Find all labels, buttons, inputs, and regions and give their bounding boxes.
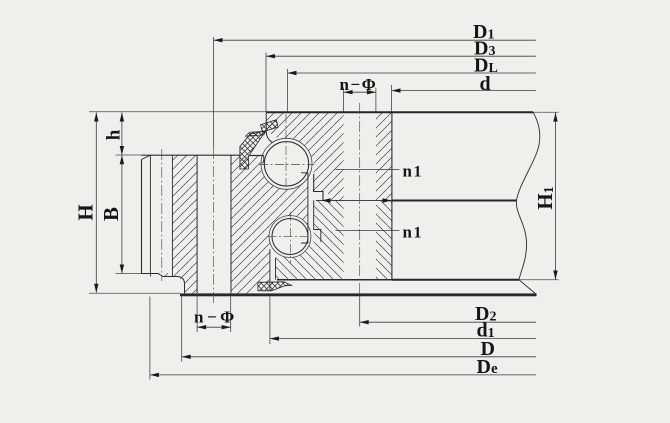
n1 leader lower — [336, 230, 400, 232]
bottom mounting band (thick) — [180, 293, 537, 296]
inner ring outline: bore edge — [141, 160, 143, 274]
svg-text:n−Φ: n−Φ — [340, 75, 378, 94]
centerline: gear column — [161, 149, 163, 281]
outer ring upper lip edge — [266, 113, 272, 143]
lower ball — [272, 219, 308, 255]
dimension H (left) — [95, 113, 97, 293]
outer ring upper half hatched body — [266, 113, 392, 201]
dimension D2 (bottom) — [360, 321, 536, 323]
gear tooth line 1 — [149, 155, 151, 276]
dimension d — [392, 90, 536, 92]
dimension DL — [288, 72, 536, 74]
dimension n-PHI top — [344, 91, 376, 93]
split line arrowhead left — [322, 198, 331, 203]
outer upper half inner profile at gap — [314, 174, 323, 200]
bottom extension line (left thin) — [89, 292, 180, 294]
break line (wavy) — [516, 112, 539, 294]
h bottom extension — [116, 154, 142, 156]
svg-text:n−Φ: n−Φ — [194, 307, 238, 326]
B bottom extension — [116, 273, 142, 275]
dimension n-PHI bottom — [197, 326, 231, 328]
inner ring gear-tooth column (white) — [142, 155, 172, 273]
inner ring bottom step — [142, 274, 185, 294]
lower seal (mesh) — [258, 282, 292, 291]
svg-text:B: B — [99, 207, 123, 221]
svg-text:d: d — [480, 73, 491, 95]
centerline: inner bolt hole — [213, 148, 215, 305]
n1 leader upper — [336, 169, 400, 171]
dimension H1 (right) — [555, 113, 557, 280]
upper ball pocket (raceway) — [261, 138, 312, 189]
surface curve into upper raceway — [263, 156, 264, 164]
lower ball pocket (raceway) — [269, 216, 311, 258]
lower structure bottom line (thick) — [392, 279, 519, 281]
outer lower half inner profile at gap — [314, 200, 321, 242]
inner ring tongue right edge — [301, 173, 308, 243]
centerline: upper ball vertical — [285, 114, 287, 190]
outer lower half left corner — [275, 258, 277, 280]
upper seal lip prong (mesh) — [246, 131, 266, 136]
centerline: outer bolt hole — [359, 103, 361, 296]
split line arrowhead right — [383, 198, 392, 203]
outer ring bottom line — [277, 279, 392, 281]
outer ring bolt hole (white column) — [344, 113, 376, 280]
split line thick (structures joint) — [392, 199, 517, 201]
inner ring hatched body — [142, 155, 308, 294]
raceway gap strip between rings — [308, 173, 314, 244]
H1 bottom extension — [519, 279, 559, 281]
dimension De (bottom) — [150, 374, 536, 376]
outer ring outer edge — [391, 113, 393, 281]
svg-text:H: H — [74, 204, 98, 220]
dimension D (bottom) — [182, 356, 536, 358]
split-line notch in upper outer half — [314, 192, 323, 201]
split line thin inside outer ring — [316, 199, 392, 201]
inner ring top chamfer — [142, 155, 151, 159]
dimension h (left) — [121, 113, 123, 156]
centerline: lower ball vertical — [289, 212, 291, 263]
top surface extension line (left thin) — [89, 111, 266, 113]
top surface (thick) — [266, 111, 533, 113]
outer ring lower half hatched body — [276, 200, 392, 280]
svg-text:h: h — [104, 129, 125, 140]
dimension D1 — [214, 39, 536, 41]
dimension B (left) — [121, 155, 123, 273]
inner ring bolt hole (white column) — [197, 155, 231, 293]
top surface H1 extension (right thin) — [533, 111, 559, 113]
lower gap strip left of outer lower half — [270, 244, 275, 280]
centerline: lower ball horizontal — [268, 236, 311, 238]
inner bolt hole walls — [197, 155, 231, 293]
upper ball — [264, 142, 308, 186]
dimension d1 (bottom) — [270, 338, 536, 340]
gear tooth line 2 — [171, 155, 173, 276]
centerline: upper ball horizontal — [259, 164, 314, 166]
inner ring right edge below lower ball — [269, 249, 271, 291]
inner ring top surface — [142, 154, 264, 156]
dimension D3 — [266, 55, 536, 57]
upper seal retainer block (mesh) — [261, 120, 279, 132]
upper seal wedge (mesh) — [240, 131, 266, 169]
